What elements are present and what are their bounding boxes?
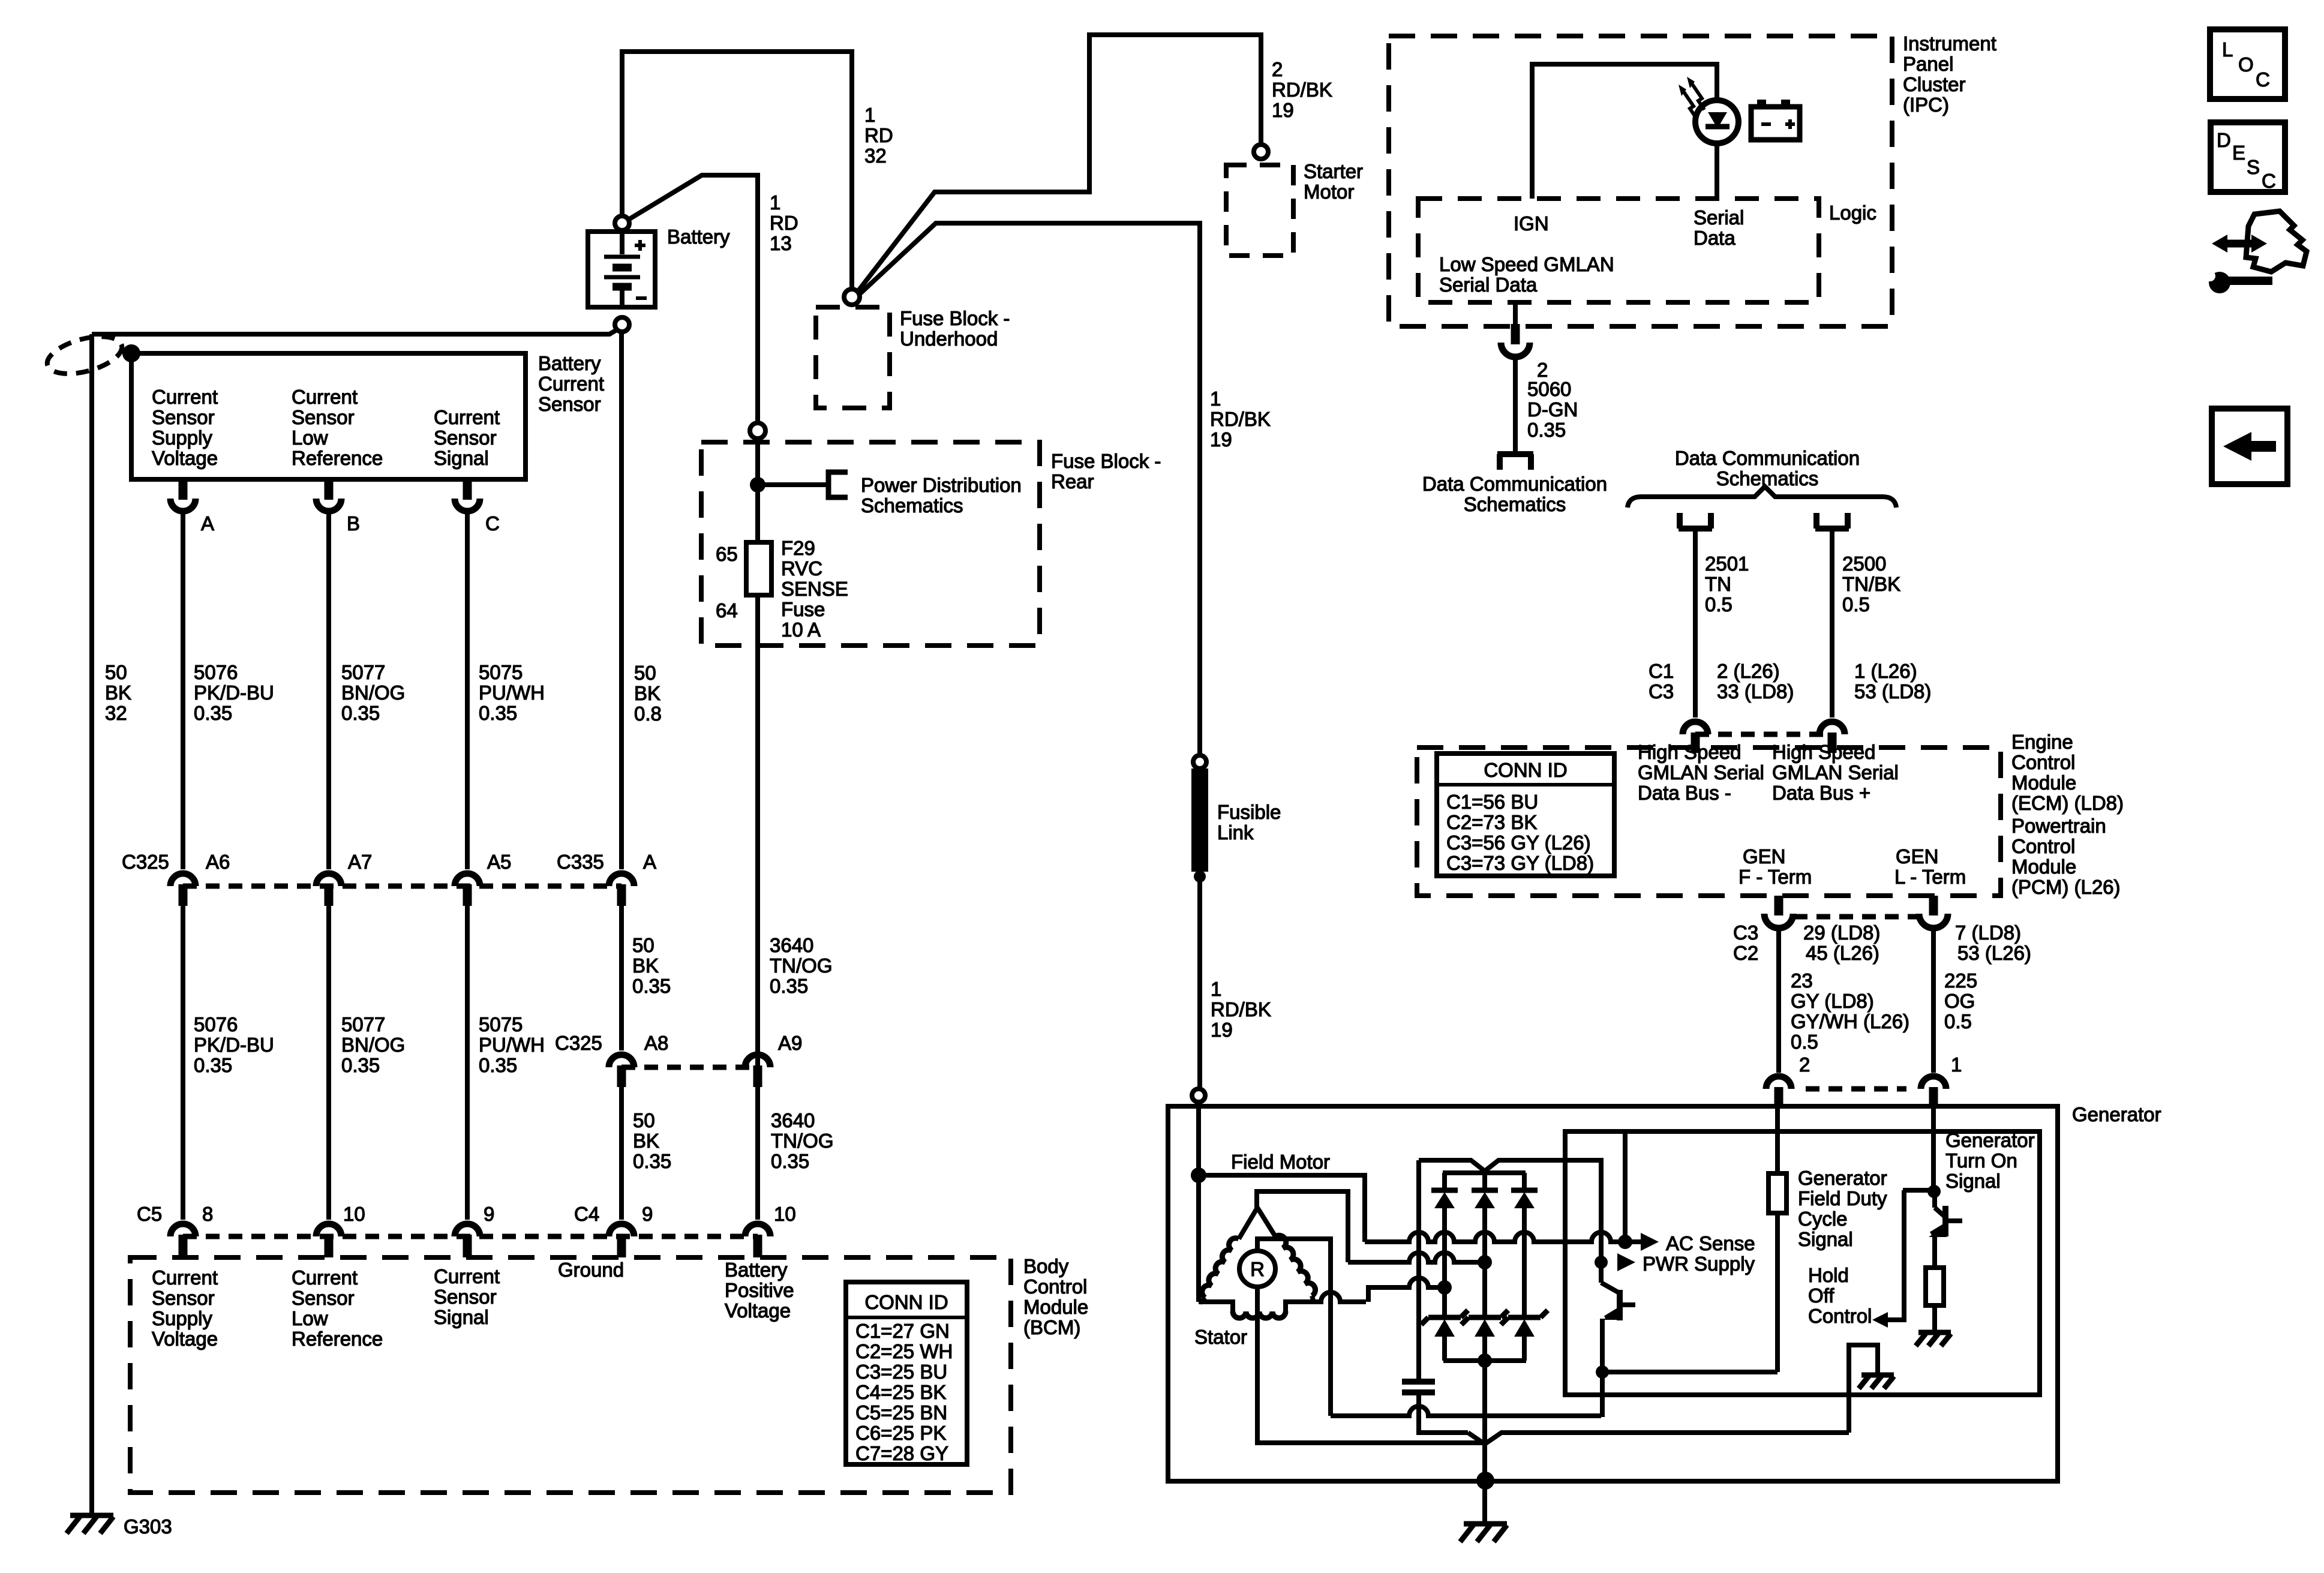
svg-text:64: 64	[716, 599, 738, 622]
svg-text:S: S	[2247, 156, 2260, 178]
svg-text:Engine: Engine	[2011, 731, 2073, 753]
svg-text:TN/OG: TN/OG	[771, 1130, 834, 1152]
svg-text:Serial Data: Serial Data	[1439, 274, 1538, 296]
svg-text:TN/BK: TN/BK	[1842, 573, 1900, 595]
svg-text:PU/WH: PU/WH	[479, 682, 545, 704]
svg-text:C2=73 BK: C2=73 BK	[1446, 811, 1537, 833]
svg-text:C4: C4	[574, 1203, 599, 1225]
svg-text:Panel: Panel	[1903, 53, 1953, 75]
svg-text:CONN ID: CONN ID	[864, 1291, 948, 1313]
svg-text:(BCM): (BCM)	[1023, 1316, 1080, 1338]
svg-text:Current: Current	[538, 373, 604, 395]
svg-text:(IPC): (IPC)	[1903, 94, 1949, 116]
svg-text:0.35: 0.35	[633, 1150, 671, 1172]
svg-text:Sensor: Sensor	[434, 1286, 497, 1308]
svg-text:Control: Control	[1023, 1275, 1087, 1298]
svg-text:R: R	[1250, 1258, 1265, 1280]
svg-text:Current: Current	[434, 1265, 500, 1287]
svg-text:2: 2	[1799, 1053, 1810, 1076]
svg-text:CONN ID: CONN ID	[1484, 759, 1567, 781]
svg-text:1: 1	[1210, 388, 1221, 410]
svg-text:C6=25 PK: C6=25 PK	[855, 1422, 946, 1444]
svg-text:Turn On: Turn On	[1945, 1149, 2017, 1172]
svg-text:19: 19	[1211, 1019, 1233, 1041]
svg-text:Cycle: Cycle	[1798, 1208, 1848, 1230]
svg-text:0.5: 0.5	[1705, 593, 1733, 616]
svg-text:Battery: Battery	[725, 1259, 788, 1281]
svg-text:19: 19	[1210, 428, 1232, 451]
svg-text:33 (LD8): 33 (LD8)	[1717, 680, 1794, 703]
svg-text:Logic: Logic	[1829, 202, 1876, 224]
svg-text:Voltage: Voltage	[152, 1328, 218, 1350]
svg-text:50: 50	[634, 662, 656, 684]
svg-text:IGN: IGN	[1514, 212, 1549, 235]
svg-text:GY (LD8): GY (LD8)	[1791, 990, 1874, 1012]
svg-text:9: 9	[484, 1203, 494, 1225]
svg-text:32: 32	[105, 702, 127, 724]
svg-text:Voltage: Voltage	[152, 447, 218, 469]
svg-text:1: 1	[864, 104, 875, 126]
svg-text:Control: Control	[1808, 1305, 1872, 1327]
svg-text:2 (L26): 2 (L26)	[1717, 660, 1780, 682]
svg-text:Data Communication: Data Communication	[1422, 473, 1607, 495]
svg-text:Sensor: Sensor	[152, 1287, 215, 1309]
svg-text:Ground: Ground	[558, 1259, 624, 1281]
svg-text:Sensor: Sensor	[152, 406, 215, 428]
svg-text:0.35: 0.35	[632, 975, 671, 997]
svg-text:C335: C335	[557, 851, 604, 873]
svg-text:A: A	[643, 851, 656, 873]
svg-text:Signal: Signal	[1798, 1228, 1853, 1250]
svg-text:O: O	[2238, 53, 2254, 76]
svg-text:10: 10	[343, 1203, 365, 1225]
svg-text:C2=25 WH: C2=25 WH	[855, 1340, 953, 1362]
svg-text:10 A: 10 A	[781, 619, 821, 641]
svg-text:Underhood: Underhood	[900, 328, 998, 350]
svg-text:C325: C325	[555, 1032, 602, 1054]
svg-text:Current: Current	[152, 1266, 218, 1289]
svg-text:C5=25 BN: C5=25 BN	[855, 1401, 947, 1424]
svg-text:C3=56 GY (L26): C3=56 GY (L26)	[1446, 831, 1591, 854]
svg-text:Data: Data	[1694, 227, 1736, 249]
svg-text:0.35: 0.35	[194, 702, 232, 724]
svg-text:C5: C5	[137, 1203, 162, 1225]
svg-text:1: 1	[770, 191, 780, 214]
svg-text:Module: Module	[2011, 855, 2076, 878]
svg-text:GMLAN Serial: GMLAN Serial	[1772, 761, 1899, 784]
svg-text:Powertrain: Powertrain	[2011, 815, 2106, 837]
svg-text:0.35: 0.35	[771, 1150, 809, 1172]
svg-text:5076: 5076	[194, 1013, 238, 1035]
svg-text:Data Bus -: Data Bus -	[1638, 782, 1731, 804]
svg-text:Starter: Starter	[1304, 160, 1363, 182]
svg-text:BK: BK	[633, 1130, 659, 1152]
svg-text:0.35: 0.35	[341, 702, 380, 724]
svg-text:C: C	[2262, 170, 2276, 192]
svg-text:50: 50	[105, 661, 127, 683]
svg-text:Field Motor: Field Motor	[1231, 1151, 1330, 1173]
svg-text:C: C	[485, 512, 500, 535]
svg-text:Hold: Hold	[1808, 1264, 1849, 1286]
svg-text:5075: 5075	[479, 661, 523, 683]
svg-text:A7: A7	[348, 851, 372, 873]
svg-text:Battery: Battery	[538, 352, 601, 374]
svg-text:0.8: 0.8	[634, 703, 662, 725]
svg-text:Battery: Battery	[667, 226, 730, 248]
svg-text:Signal: Signal	[1945, 1170, 2001, 1192]
svg-text:GEN: GEN	[1896, 845, 1939, 867]
svg-text:C7=28 GY: C7=28 GY	[855, 1442, 948, 1464]
svg-text:B: B	[347, 512, 360, 535]
svg-text:1: 1	[1951, 1053, 1962, 1076]
svg-text:Current: Current	[434, 406, 500, 428]
svg-text:RD/BK: RD/BK	[1210, 408, 1271, 430]
svg-text:53 (LD8): 53 (LD8)	[1854, 680, 1931, 703]
svg-text:RD: RD	[864, 124, 893, 146]
svg-text:225: 225	[1944, 969, 1977, 992]
svg-text:Generator: Generator	[1798, 1167, 1887, 1189]
svg-text:C4=25 BK: C4=25 BK	[855, 1381, 946, 1403]
svg-text:Generator: Generator	[2072, 1103, 2161, 1125]
svg-text:PK/D-BU: PK/D-BU	[194, 1034, 274, 1056]
svg-text:GEN: GEN	[1743, 845, 1786, 867]
svg-text:0.5: 0.5	[1944, 1010, 1972, 1032]
svg-text:C: C	[2256, 68, 2270, 91]
svg-text:53 (L26): 53 (L26)	[1957, 942, 2031, 964]
svg-text:(ECM) (LD8): (ECM) (LD8)	[2011, 792, 2124, 814]
svg-text:D: D	[2217, 129, 2231, 151]
svg-text:Fuse: Fuse	[781, 598, 825, 620]
svg-text:RD: RD	[770, 212, 798, 234]
svg-text:Schematics: Schematics	[861, 494, 963, 517]
svg-text:RD/BK: RD/BK	[1211, 998, 1271, 1020]
svg-text:PU/WH: PU/WH	[479, 1034, 545, 1056]
svg-text:Body: Body	[1023, 1255, 1069, 1277]
svg-text:Cluster: Cluster	[1903, 73, 1966, 95]
svg-text:Current: Current	[292, 386, 358, 408]
svg-text:Voltage: Voltage	[725, 1299, 791, 1322]
svg-text:D-GN: D-GN	[1527, 398, 1578, 421]
svg-text:C3=25 BU: C3=25 BU	[855, 1361, 947, 1383]
svg-text:Supply: Supply	[152, 427, 212, 449]
svg-text:A5: A5	[487, 851, 511, 873]
svg-text:0.35: 0.35	[341, 1054, 380, 1076]
svg-text:29 (LD8): 29 (LD8)	[1803, 921, 1880, 944]
svg-text:BK: BK	[632, 954, 659, 977]
svg-text:Data Bus +: Data Bus +	[1772, 782, 1870, 804]
svg-text:Reference: Reference	[292, 447, 383, 469]
svg-text:A: A	[201, 512, 214, 535]
svg-text:9: 9	[642, 1203, 653, 1225]
svg-text:Instrument: Instrument	[1903, 32, 1996, 55]
svg-text:Low: Low	[292, 1307, 328, 1329]
svg-text:10: 10	[774, 1203, 796, 1225]
svg-text:Low Speed GMLAN: Low Speed GMLAN	[1439, 253, 1614, 275]
svg-text:E: E	[2232, 142, 2245, 164]
svg-text:Control: Control	[2011, 751, 2075, 773]
svg-text:5075: 5075	[479, 1013, 523, 1035]
svg-text:32: 32	[864, 145, 887, 167]
svg-text:BK: BK	[634, 682, 660, 704]
svg-text:0.35: 0.35	[479, 702, 517, 724]
svg-text:OG: OG	[1944, 990, 1975, 1012]
svg-text:0.35: 0.35	[194, 1054, 232, 1076]
svg-text:RVC: RVC	[781, 557, 822, 580]
svg-text:C3=73 GY (LD8): C3=73 GY (LD8)	[1446, 852, 1594, 874]
svg-text:A8: A8	[644, 1032, 668, 1054]
svg-text:Sensor: Sensor	[292, 1287, 355, 1309]
svg-text:Stator: Stator	[1194, 1326, 1247, 1348]
svg-text:23: 23	[1791, 969, 1813, 992]
svg-text:C1=27 GN: C1=27 GN	[855, 1320, 950, 1342]
svg-text:0.35: 0.35	[1527, 419, 1566, 441]
svg-text:50: 50	[633, 1109, 655, 1131]
svg-text:Sensor: Sensor	[434, 427, 497, 449]
svg-text:C3: C3	[1649, 680, 1674, 703]
svg-text:Serial: Serial	[1694, 206, 1744, 229]
svg-text:Control: Control	[2011, 835, 2075, 857]
svg-text:Data Communication: Data Communication	[1675, 447, 1860, 469]
svg-text:F29: F29	[781, 537, 815, 559]
svg-text:BN/OG: BN/OG	[341, 682, 405, 704]
svg-text:RD/BK: RD/BK	[1272, 79, 1332, 101]
svg-text:BK: BK	[105, 682, 131, 704]
svg-text:Supply: Supply	[152, 1307, 212, 1329]
svg-text:19: 19	[1272, 99, 1294, 121]
svg-text:Low: Low	[292, 427, 328, 449]
svg-text:0.35: 0.35	[770, 975, 808, 997]
svg-text:7 (LD8): 7 (LD8)	[1955, 921, 2021, 944]
svg-text:Signal: Signal	[434, 447, 489, 469]
svg-text:5060: 5060	[1527, 378, 1571, 400]
svg-text:3640: 3640	[771, 1109, 815, 1131]
svg-text:0.5: 0.5	[1842, 593, 1870, 616]
svg-text:TN/OG: TN/OG	[770, 954, 833, 977]
svg-text:Positive: Positive	[725, 1279, 794, 1301]
svg-text:Off: Off	[1808, 1284, 1834, 1307]
svg-text:BN/OG: BN/OG	[341, 1034, 405, 1056]
svg-text:High Speed: High Speed	[1772, 741, 1875, 763]
svg-text:L: L	[2222, 38, 2233, 61]
svg-text:(PCM) (L26): (PCM) (L26)	[2011, 876, 2121, 898]
svg-text:Field Duty: Field Duty	[1798, 1187, 1887, 1209]
svg-text:Fuse Block -: Fuse Block -	[900, 307, 1010, 329]
svg-text:C1: C1	[1649, 660, 1674, 682]
svg-text:G303: G303	[124, 1515, 172, 1538]
svg-text:Fusible: Fusible	[1217, 801, 1281, 823]
svg-text:C3: C3	[1733, 921, 1758, 944]
svg-text:65: 65	[716, 543, 738, 565]
svg-text:2: 2	[1272, 58, 1283, 80]
svg-text:2501: 2501	[1705, 553, 1749, 575]
svg-text:C325: C325	[122, 851, 169, 873]
svg-text:Current: Current	[152, 386, 218, 408]
svg-text:A9: A9	[778, 1032, 802, 1054]
svg-text:Sensor: Sensor	[292, 406, 355, 428]
svg-text:Current: Current	[292, 1266, 358, 1289]
svg-text:TN: TN	[1705, 573, 1731, 595]
svg-text:1 (L26): 1 (L26)	[1854, 660, 1917, 682]
svg-text:SENSE: SENSE	[781, 578, 848, 600]
svg-text:Module: Module	[2011, 772, 2076, 794]
svg-text:5076: 5076	[194, 661, 238, 683]
svg-text:Module: Module	[1023, 1296, 1088, 1318]
svg-text:A6: A6	[206, 851, 230, 873]
svg-text:PWR Supply: PWR Supply	[1643, 1253, 1755, 1275]
svg-text:2500: 2500	[1842, 553, 1886, 575]
svg-text:0.5: 0.5	[1791, 1031, 1818, 1053]
svg-text:1: 1	[1211, 978, 1221, 1000]
svg-text:Schematics: Schematics	[1464, 493, 1566, 515]
svg-text:13: 13	[770, 232, 792, 254]
svg-text:50: 50	[632, 934, 654, 956]
svg-text:Sensor: Sensor	[538, 393, 601, 415]
svg-text:PK/D-BU: PK/D-BU	[194, 682, 274, 704]
svg-text:GMLAN Serial: GMLAN Serial	[1638, 761, 1764, 784]
svg-text:F - Term: F - Term	[1739, 866, 1812, 888]
svg-text:GY/WH (L26): GY/WH (L26)	[1791, 1010, 1909, 1032]
svg-text:Fuse Block -: Fuse Block -	[1051, 450, 1161, 472]
svg-text:0.35: 0.35	[479, 1054, 517, 1076]
svg-text:Link: Link	[1217, 821, 1254, 843]
svg-text:Generator: Generator	[1945, 1129, 2035, 1151]
svg-text:8: 8	[202, 1203, 213, 1225]
svg-text:3640: 3640	[770, 934, 813, 956]
svg-text:Rear: Rear	[1051, 470, 1094, 493]
svg-text:C1=56 BU: C1=56 BU	[1446, 791, 1538, 813]
svg-text:High Speed: High Speed	[1638, 741, 1741, 763]
svg-text:Power Distribution: Power Distribution	[861, 474, 1022, 496]
svg-text:Reference: Reference	[292, 1328, 383, 1350]
svg-text:C2: C2	[1733, 942, 1758, 964]
svg-text:L - Term: L - Term	[1894, 866, 1966, 888]
svg-text:5077: 5077	[341, 1013, 385, 1035]
svg-text:Signal: Signal	[434, 1306, 489, 1328]
svg-text:Motor: Motor	[1304, 181, 1354, 203]
svg-text:5077: 5077	[341, 661, 385, 683]
svg-text:AC Sense: AC Sense	[1666, 1232, 1755, 1254]
svg-text:45 (L26): 45 (L26)	[1806, 942, 1879, 964]
